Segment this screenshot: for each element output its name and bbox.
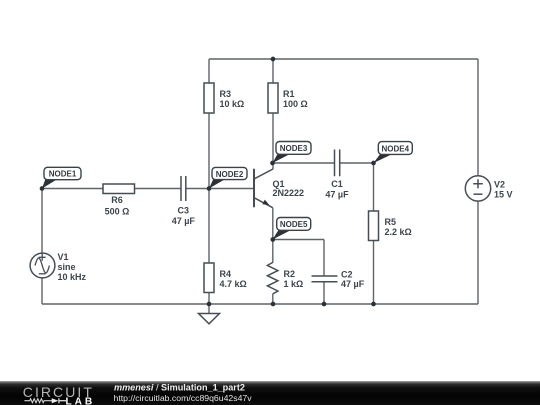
svg-text:10 kHz: 10 kHz	[58, 272, 87, 282]
wire node5 to R2	[272, 240, 274, 263]
svg-text:47 µF: 47 µF	[341, 279, 365, 289]
svg-text:R3: R3	[220, 89, 232, 99]
voltage source V1	[30, 252, 86, 282]
svg-text:NODE2: NODE2	[216, 170, 244, 179]
svg-text:NODE5: NODE5	[280, 220, 308, 229]
svg-text:R1: R1	[283, 89, 295, 99]
junction bottom rail R5	[371, 302, 376, 307]
svg-text:mmenesi / Simulation_1_part2: mmenesi / Simulation_1_part2	[114, 382, 245, 392]
capacitor C1	[325, 150, 349, 200]
junction bottom rail C2	[322, 302, 327, 307]
wire top rail to R3	[208, 59, 210, 83]
junction node NODE1	[40, 186, 45, 191]
svg-text:R2: R2	[284, 269, 296, 279]
svg-text:V2: V2	[494, 179, 505, 189]
wire R4 to ground rail	[208, 293, 210, 305]
wire node1 to R6	[42, 188, 103, 190]
svg-text:C1: C1	[331, 179, 343, 189]
junction node NODE5	[270, 237, 275, 242]
svg-text:sine: sine	[58, 262, 76, 272]
svg-text:2N2222: 2N2222	[273, 188, 305, 198]
resistor R1	[268, 83, 308, 113]
wire top rail	[209, 58, 478, 60]
svg-text:NODE3: NODE3	[280, 144, 308, 153]
wire R3 to node2 to R4	[208, 113, 210, 263]
wire bottom rail	[42, 303, 478, 305]
wire R2 to bottom rail	[272, 294, 274, 304]
svg-text:LAB: LAB	[66, 397, 96, 405]
capacitor C3	[172, 176, 196, 226]
junction top rail R1	[271, 57, 276, 62]
wire R5 to bottom rail	[373, 241, 375, 305]
resistor R5	[369, 211, 412, 241]
resistor R6	[103, 184, 135, 217]
svg-text:47 µF: 47 µF	[325, 189, 349, 199]
svg-text:NODE4: NODE4	[382, 144, 410, 153]
svg-text:C2: C2	[341, 270, 353, 280]
resistor R4	[204, 263, 247, 293]
wire C3 to node2 to Q1 base	[186, 188, 254, 190]
svg-text:10 kΩ: 10 kΩ	[220, 99, 245, 109]
svg-text:R4: R4	[220, 269, 232, 279]
svg-text:1 kΩ: 1 kΩ	[284, 279, 304, 289]
node NODE4 label	[374, 142, 413, 163]
node NODE5 label	[273, 218, 311, 240]
wire right rail upper	[477, 59, 479, 176]
svg-text:100 Ω: 100 Ω	[283, 99, 308, 109]
svg-text:V1: V1	[58, 252, 69, 262]
svg-text:R6: R6	[111, 195, 123, 205]
svg-text:4.7 kΩ: 4.7 kΩ	[220, 279, 247, 289]
node NODE1 label	[42, 167, 81, 188]
wire C1 to node4	[340, 162, 374, 164]
svg-text:C3: C3	[178, 206, 190, 216]
wire ground stem	[208, 304, 210, 314]
junction node NODE2	[207, 186, 212, 191]
svg-text:http://circuitlab.com/cc89q6u4: http://circuitlab.com/cc89q6u42s47v	[114, 393, 253, 403]
svg-text:500 Ω: 500 Ω	[105, 207, 130, 217]
junction node NODE3	[270, 161, 275, 166]
wire node3 to C1	[273, 162, 335, 164]
junction bottom rail R2	[271, 302, 276, 307]
junction bottom rail ground	[207, 302, 212, 307]
transistor Q1	[254, 169, 304, 208]
wire top rail to R1	[272, 59, 274, 83]
voltage source V2	[465, 176, 512, 201]
svg-text:2.2 kΩ: 2.2 kΩ	[385, 227, 412, 237]
resistor R3	[204, 83, 244, 113]
footer CircuitLab logo	[23, 384, 95, 405]
wire C2 to bottom rail	[323, 282, 325, 304]
node NODE2 label	[209, 167, 247, 188]
wire right rail lower	[477, 201, 479, 304]
resistor R2	[267, 262, 303, 294]
wire C2 branch vertical upper	[323, 240, 325, 277]
wire node4 to R5	[373, 163, 375, 211]
wire R6 to C3	[135, 188, 182, 190]
svg-text:NODE1: NODE1	[49, 170, 77, 179]
node NODE3 label	[273, 142, 312, 164]
ground	[199, 314, 220, 324]
footer bar	[0, 381, 540, 405]
svg-text:15 V: 15 V	[494, 189, 513, 199]
wire node5 to C2 branch	[273, 239, 324, 241]
wire R1 to node3	[272, 113, 274, 169]
svg-text:47 µF: 47 µF	[172, 216, 196, 226]
capacitor C2	[312, 270, 365, 290]
svg-text:R5: R5	[385, 217, 397, 227]
wire V1 lower branch	[41, 278, 43, 304]
junction node NODE4	[371, 161, 376, 166]
wire V1 upper branch	[41, 189, 43, 254]
wire Q1 emitter to node5	[272, 208, 274, 240]
